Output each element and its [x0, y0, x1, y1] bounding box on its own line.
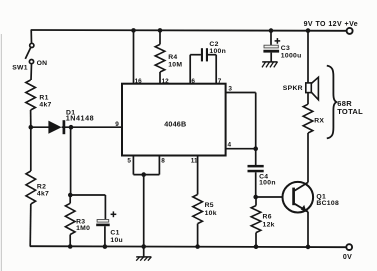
- svg-text:TOTAL: TOTAL: [337, 107, 363, 116]
- svg-text:1M0: 1M0: [76, 225, 90, 232]
- svg-text:R5: R5: [205, 202, 214, 209]
- svg-text:10M: 10M: [168, 61, 182, 68]
- svg-text:R6: R6: [263, 214, 272, 221]
- svg-text:7: 7: [218, 78, 222, 85]
- svg-text:ON: ON: [37, 60, 48, 67]
- svg-text:100n: 100n: [259, 179, 276, 186]
- svg-text:4k7: 4k7: [37, 191, 49, 198]
- svg-text:0V: 0V: [343, 254, 352, 261]
- svg-text:4: 4: [228, 141, 232, 148]
- svg-text:9: 9: [115, 121, 119, 128]
- svg-text:12: 12: [162, 78, 170, 85]
- svg-text:C3: C3: [281, 45, 290, 52]
- svg-text:8: 8: [161, 157, 165, 164]
- svg-text:SW1: SW1: [12, 65, 28, 72]
- svg-text:R4: R4: [168, 54, 177, 61]
- svg-text:11: 11: [191, 157, 198, 164]
- svg-text:4k7: 4k7: [39, 101, 51, 108]
- svg-text:RX: RX: [314, 118, 324, 125]
- svg-text:3: 3: [228, 85, 232, 92]
- svg-text:1N4148: 1N4148: [66, 114, 94, 123]
- svg-text:1000u: 1000u: [281, 53, 302, 60]
- svg-text:R2: R2: [37, 184, 46, 191]
- svg-text:10k: 10k: [205, 210, 217, 217]
- svg-text:100n: 100n: [209, 48, 226, 55]
- svg-text:16: 16: [135, 78, 143, 85]
- svg-text:BC108: BC108: [316, 200, 339, 207]
- svg-text:SPKR: SPKR: [283, 85, 303, 92]
- svg-text:6: 6: [191, 78, 195, 85]
- svg-text:R1: R1: [39, 94, 48, 101]
- svg-text:4046B: 4046B: [164, 120, 186, 129]
- svg-text:5: 5: [127, 157, 131, 164]
- svg-text:12k: 12k: [263, 221, 275, 228]
- svg-text:C1: C1: [110, 230, 119, 237]
- svg-text:10u: 10u: [110, 237, 123, 244]
- svg-text:9V TO 12V +Ve: 9V TO 12V +Ve: [304, 21, 359, 28]
